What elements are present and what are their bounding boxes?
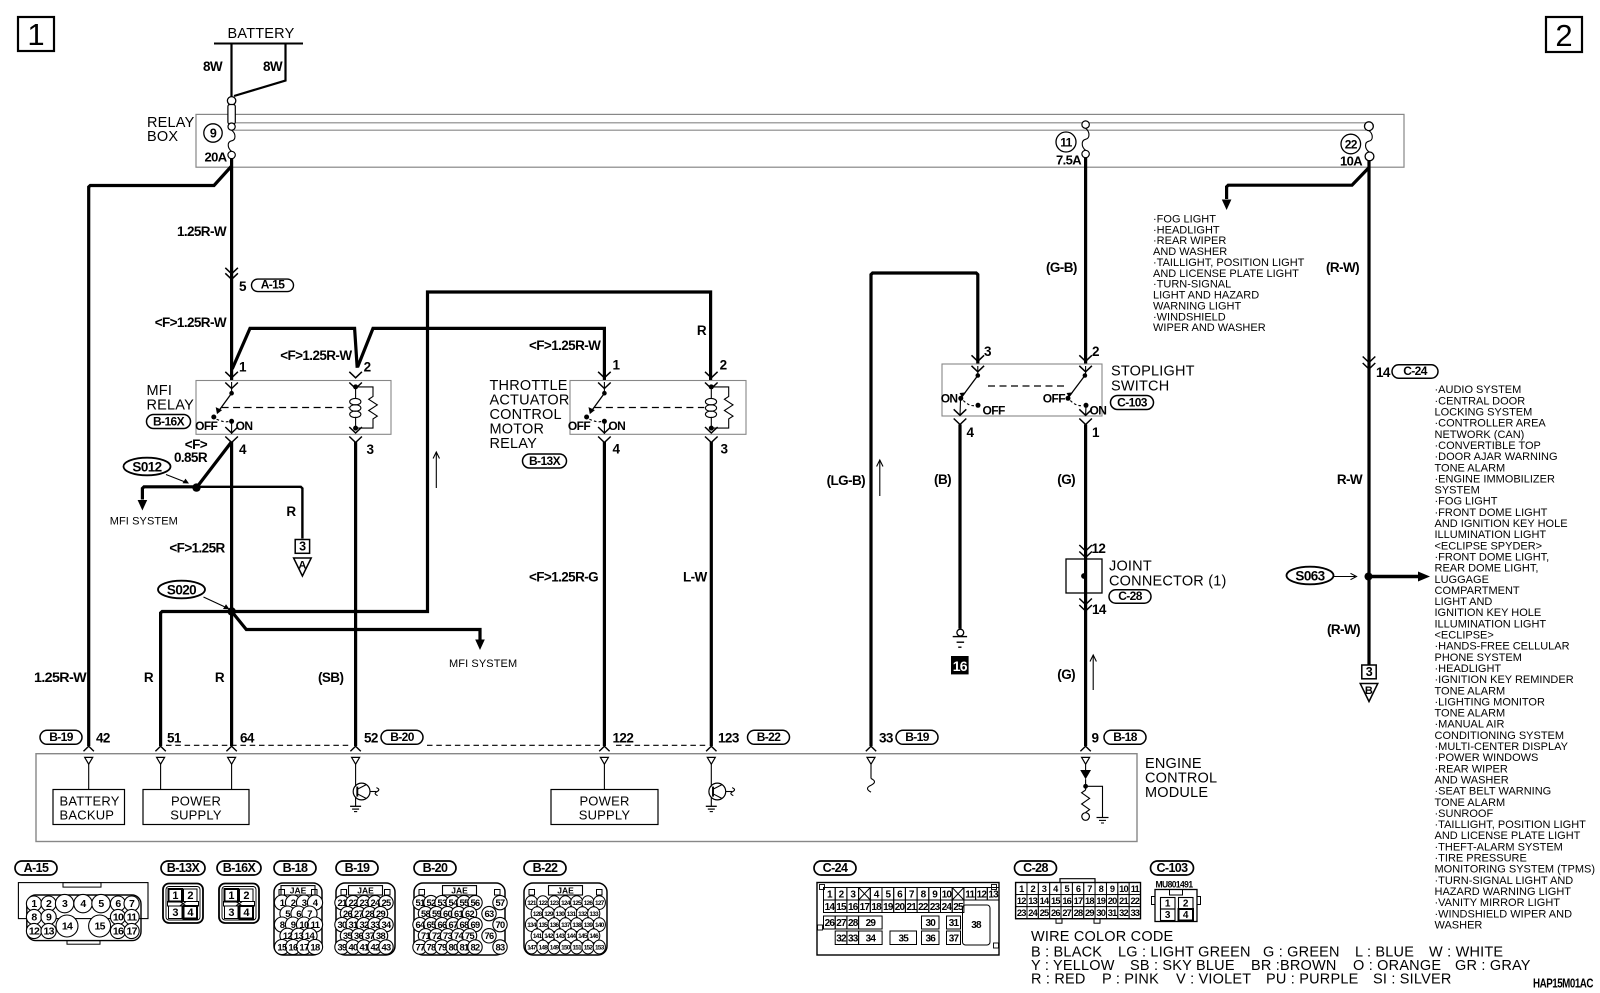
svg-text:B-20: B-20 (423, 861, 448, 875)
svg-text:30: 30 (1096, 908, 1105, 918)
svg-text:1: 1 (172, 890, 178, 902)
svg-text:MODULE: MODULE (1145, 785, 1208, 801)
svg-text:151: 151 (572, 944, 582, 951)
svg-text:25: 25 (382, 898, 391, 908)
svg-text:1.25R-W: 1.25R-W (34, 670, 87, 685)
svg-text:77: 77 (416, 942, 425, 952)
svg-text:76: 76 (485, 931, 494, 941)
svg-text:0.85R: 0.85R (174, 450, 208, 465)
ECM pin terminals (84, 746, 94, 751)
svg-text:R: R (144, 670, 154, 685)
svg-text:51: 51 (167, 731, 182, 746)
wire throttle pin4 to ECM pin 122 (603, 442, 606, 746)
svg-text:12: 12 (283, 931, 293, 942)
svg-text:R-W: R-W (1337, 472, 1363, 487)
svg-text:129: 129 (544, 911, 554, 918)
svg-text:35: 35 (343, 931, 352, 941)
svg-text:43: 43 (382, 942, 391, 952)
svg-text:P : PINK: P : PINK (1102, 972, 1159, 988)
svg-text:(LG-B): (LG-B) (827, 473, 865, 488)
svg-text:28: 28 (365, 909, 374, 919)
svg-text:1: 1 (1092, 425, 1100, 440)
svg-text:20: 20 (1108, 896, 1117, 906)
svg-text:147: 147 (527, 944, 537, 951)
wire MFI pin2 to throttle relay pin1 (358, 328, 605, 381)
svg-text:34: 34 (382, 920, 392, 930)
svg-text:12: 12 (977, 889, 988, 900)
svg-text:BACKUP: BACKUP (60, 808, 115, 823)
svg-text:1: 1 (239, 360, 247, 375)
svg-text:27: 27 (354, 909, 363, 919)
svg-text:130: 130 (556, 911, 566, 918)
svg-text:32: 32 (1119, 908, 1128, 918)
svg-text:JAE: JAE (290, 885, 307, 895)
wire 1.25R-W fuse 9 to MFI relay pin 1 (230, 158, 233, 381)
MFI relay internals (225, 372, 238, 378)
svg-text:R: R (697, 323, 707, 338)
svg-text:OFF: OFF (568, 419, 590, 433)
svg-text:23: 23 (360, 898, 369, 908)
fuse 9 20A (227, 97, 235, 105)
svg-text:69: 69 (471, 920, 480, 930)
svg-text:2: 2 (291, 898, 296, 909)
fuse 22 10A (1365, 122, 1374, 131)
stoplight dashed coupling (988, 385, 1067, 387)
svg-text:26: 26 (1051, 908, 1060, 918)
svg-text:B-16X: B-16X (223, 861, 257, 875)
svg-text:15: 15 (94, 921, 105, 933)
svg-text:17: 17 (299, 942, 309, 953)
svg-text:152: 152 (584, 944, 594, 951)
svg-text:37: 37 (365, 931, 374, 941)
svg-text:3: 3 (172, 907, 178, 919)
wire SB MFI pin3 to ECM pin 52 (354, 442, 357, 746)
svg-text:139: 139 (584, 922, 594, 929)
svg-text:19: 19 (883, 902, 894, 913)
svg-text:42: 42 (96, 731, 110, 746)
svg-text:72: 72 (432, 931, 441, 941)
svg-text:57: 57 (496, 898, 505, 908)
ECM pin connector pills (40, 730, 82, 744)
svg-text:56: 56 (471, 898, 480, 908)
svg-text:37: 37 (949, 934, 960, 945)
svg-text:C-28: C-28 (1023, 861, 1048, 875)
svg-text:4: 4 (80, 898, 86, 910)
svg-text:MFI SYSTEM: MFI SYSTEM (110, 516, 178, 528)
connector C-24 pin 14 pass-through (1363, 357, 1376, 363)
wire throttle pin3 to ECM pin 123 (710, 442, 713, 746)
svg-text:11: 11 (1131, 884, 1140, 894)
svg-text:A-15: A-15 (24, 861, 49, 875)
svg-text:4: 4 (967, 425, 975, 440)
joint connector (1) C-28 (1079, 545, 1092, 551)
svg-text:8: 8 (1099, 884, 1104, 894)
svg-text:2: 2 (1555, 18, 1572, 53)
svg-text:S012: S012 (132, 459, 161, 474)
svg-text:24: 24 (371, 898, 381, 908)
svg-text:24: 24 (942, 902, 953, 913)
svg-text:C-103: C-103 (1156, 861, 1188, 875)
connector B-20 (414, 861, 456, 875)
svg-text:OFF: OFF (983, 404, 1005, 418)
svg-text:16: 16 (1062, 896, 1071, 906)
svg-text:BOX: BOX (147, 129, 178, 145)
svg-text:B: B (1365, 685, 1373, 697)
throttle relay internals (598, 372, 611, 378)
svg-text:<F>1.25R-W: <F>1.25R-W (155, 315, 227, 330)
ground 3-B (1362, 665, 1376, 679)
svg-text:79: 79 (438, 942, 447, 952)
wire LG-B ECM pin 33 to stoplight pin 3 (871, 273, 978, 746)
svg-text:<F>1.25R: <F>1.25R (169, 541, 225, 556)
svg-text:SI : SILVER: SI : SILVER (1373, 972, 1452, 988)
svg-text:CONNECTOR (1): CONNECTOR (1) (1109, 574, 1227, 590)
svg-text:1.25R-W: 1.25R-W (177, 224, 227, 239)
svg-text:3: 3 (302, 898, 307, 909)
svg-text:12: 12 (1092, 541, 1106, 556)
svg-text:V : VIOLET: V : VIOLET (1176, 972, 1251, 988)
branch arrow to light systems (1227, 168, 1369, 199)
svg-text:<F>1.25R-W: <F>1.25R-W (529, 338, 601, 353)
svg-text:B-19: B-19 (49, 730, 74, 744)
svg-text:33: 33 (371, 920, 380, 930)
svg-text:70: 70 (496, 920, 505, 930)
svg-text:9: 9 (1110, 884, 1115, 894)
svg-text:11: 11 (127, 912, 138, 924)
wire R loop S020 to throttle pin 2 (232, 292, 711, 612)
page marker 2 (1546, 17, 1582, 52)
svg-text:B-18: B-18 (1113, 730, 1138, 744)
svg-text:25: 25 (1040, 908, 1049, 918)
svg-text:64: 64 (416, 920, 426, 930)
svg-text:144: 144 (567, 933, 577, 940)
svg-text:121: 121 (527, 900, 537, 907)
svg-text:26: 26 (825, 918, 836, 929)
svg-text:S020: S020 (167, 582, 196, 597)
svg-text:4: 4 (613, 442, 621, 457)
connector B-13X (161, 861, 205, 875)
svg-text:30: 30 (925, 918, 936, 929)
svg-text:B-13X: B-13X (167, 861, 201, 875)
svg-text:WASHER: WASHER (1435, 919, 1483, 931)
svg-text:15: 15 (836, 902, 847, 913)
svg-text:138: 138 (572, 922, 582, 929)
svg-text:1: 1 (1165, 899, 1171, 910)
svg-text:R : RED: R : RED (1031, 972, 1086, 988)
svg-text:B-16X: B-16X (153, 414, 185, 428)
wire MFI pin1 to pin2 bridge (232, 328, 357, 369)
svg-text:136: 136 (550, 922, 560, 929)
power supply block 2 (603, 764, 605, 789)
svg-text:8: 8 (31, 912, 37, 924)
svg-text:(R-W): (R-W) (1327, 622, 1360, 637)
svg-text:81: 81 (460, 942, 469, 952)
svg-text:S063: S063 (1295, 568, 1325, 583)
svg-text:65: 65 (427, 920, 436, 930)
wire S020 to MFI SYSTEM 2 (232, 612, 480, 640)
svg-text:146: 146 (589, 933, 599, 940)
svg-text:PU : PURPLE: PU : PURPLE (1266, 972, 1359, 988)
svg-text:54: 54 (449, 898, 459, 908)
svg-text:35: 35 (898, 934, 909, 945)
svg-text:8W: 8W (263, 59, 283, 74)
svg-text:B-13X: B-13X (529, 454, 561, 468)
svg-text:149: 149 (550, 944, 560, 951)
svg-text:L-W: L-W (683, 570, 708, 585)
svg-text:HAP15M01AC: HAP15M01AC (1533, 977, 1593, 991)
svg-text:126: 126 (584, 900, 594, 907)
svg-text:17: 17 (1074, 896, 1083, 906)
svg-text:2: 2 (1183, 899, 1189, 910)
svg-text:5: 5 (239, 279, 247, 294)
svg-text:14: 14 (1376, 365, 1391, 380)
svg-text:33: 33 (1130, 908, 1139, 918)
svg-text:145: 145 (578, 933, 588, 940)
svg-text:MFI SYSTEM: MFI SYSTEM (449, 658, 517, 670)
svg-text:2: 2 (720, 358, 727, 373)
splice S063 (1287, 567, 1334, 585)
output transistor 1 (355, 764, 357, 783)
svg-text:6: 6 (296, 909, 301, 920)
svg-text:22: 22 (1345, 138, 1358, 152)
svg-text:137: 137 (561, 922, 571, 929)
svg-text:B-22: B-22 (757, 730, 782, 744)
connector C-24 (814, 861, 856, 875)
svg-text:7.5A: 7.5A (1056, 153, 1082, 168)
svg-text:9: 9 (210, 127, 217, 141)
svg-text:8W: 8W (203, 59, 223, 74)
svg-text:32: 32 (836, 934, 847, 945)
svg-text:B-19: B-19 (345, 861, 370, 875)
svg-text:1: 1 (613, 358, 621, 373)
svg-text:JAE: JAE (557, 885, 574, 895)
svg-text:38: 38 (971, 920, 982, 931)
svg-text:3: 3 (721, 442, 729, 457)
wire G stoplight pin1 to joint connector and ECM pin 9 (1084, 425, 1087, 747)
svg-text:2: 2 (46, 898, 52, 910)
svg-text:3: 3 (1366, 665, 1373, 679)
svg-text:2: 2 (187, 890, 193, 902)
svg-text:132: 132 (578, 911, 588, 918)
svg-text:29: 29 (866, 918, 877, 929)
svg-text:39: 39 (338, 942, 347, 952)
svg-text:C-28: C-28 (1118, 589, 1143, 603)
svg-text:11: 11 (1060, 136, 1072, 150)
svg-text:9: 9 (1092, 731, 1099, 746)
svg-text:(G-B): (G-B) (1046, 260, 1077, 275)
svg-text:4: 4 (239, 442, 247, 457)
connector C-103 (1151, 861, 1194, 875)
svg-text:8: 8 (280, 920, 285, 931)
svg-text:17: 17 (860, 902, 871, 913)
svg-text:B-18: B-18 (283, 861, 308, 875)
svg-text:28: 28 (848, 918, 859, 929)
svg-text:RELAY: RELAY (147, 398, 195, 414)
connector A-15 (15, 861, 57, 875)
svg-text:12: 12 (1017, 896, 1026, 906)
svg-text:16: 16 (288, 942, 298, 953)
svg-text:3: 3 (62, 898, 68, 910)
svg-text:11: 11 (965, 889, 975, 900)
svg-text:18: 18 (1085, 896, 1094, 906)
svg-text:SWITCH: SWITCH (1111, 379, 1169, 395)
svg-text:3: 3 (228, 907, 234, 919)
wire 1.25R-W branch to ECM pin 42 (89, 166, 232, 746)
svg-text:32: 32 (360, 920, 369, 930)
svg-text:143: 143 (556, 933, 566, 940)
svg-text:68: 68 (460, 920, 469, 930)
wire S020 left to ECM pin 51 (161, 612, 232, 747)
svg-text:1: 1 (228, 890, 234, 902)
splice S012 (124, 458, 171, 476)
svg-text:75: 75 (465, 931, 474, 941)
svg-text:7: 7 (307, 909, 312, 920)
svg-text:18: 18 (871, 902, 882, 913)
svg-text:15: 15 (277, 942, 288, 953)
svg-text:13: 13 (988, 889, 999, 900)
svg-text:61: 61 (454, 909, 463, 919)
svg-text:82: 82 (471, 942, 480, 952)
svg-text:142: 142 (544, 933, 554, 940)
svg-text:JOINT: JOINT (1109, 559, 1152, 575)
svg-text:OFF: OFF (195, 419, 217, 433)
svg-text:63: 63 (485, 909, 494, 919)
svg-text:64: 64 (240, 731, 255, 746)
svg-text:BATTERY: BATTERY (60, 794, 120, 809)
relay box bus bars (232, 122, 1366, 124)
wire S063 arrow to systems list (1369, 575, 1419, 579)
svg-text:13: 13 (294, 931, 304, 942)
svg-text:B-19: B-19 (905, 730, 930, 744)
svg-text:150: 150 (561, 944, 571, 951)
svg-text:6: 6 (1076, 884, 1081, 894)
chassis ground 16 (957, 629, 964, 636)
svg-text:R: R (215, 670, 225, 685)
svg-text:ON: ON (608, 419, 625, 433)
svg-text:29: 29 (1085, 908, 1094, 918)
engine control module box (36, 754, 1137, 842)
svg-text:<F>1.25R-W: <F>1.25R-W (280, 348, 352, 363)
svg-text:21: 21 (338, 898, 347, 908)
svg-text:10: 10 (1119, 884, 1128, 894)
svg-text:(G): (G) (1057, 472, 1075, 487)
svg-text:STOPLIGHT: STOPLIGHT (1111, 364, 1195, 380)
svg-text:36: 36 (925, 934, 936, 945)
svg-text:JAE: JAE (451, 885, 468, 895)
svg-text:2: 2 (243, 890, 249, 902)
svg-text:WIPER AND WASHER: WIPER AND WASHER (1153, 322, 1266, 334)
ECM dashed pin bus (166, 744, 352, 746)
svg-text:27: 27 (1062, 908, 1071, 918)
svg-text:20A: 20A (204, 150, 227, 165)
svg-text:12: 12 (29, 926, 40, 938)
svg-text:141: 141 (533, 933, 543, 940)
page marker 1 (18, 17, 54, 51)
svg-text:3: 3 (984, 344, 992, 359)
svg-text:41: 41 (360, 942, 369, 952)
svg-text:7: 7 (1087, 884, 1092, 894)
svg-text:55: 55 (460, 898, 469, 908)
wire R to ground A (197, 487, 303, 539)
fuse 11 7.5A (1082, 121, 1089, 128)
svg-text:34: 34 (866, 934, 877, 945)
svg-text:ON: ON (941, 392, 958, 406)
svg-text:66: 66 (438, 920, 447, 930)
svg-text:52: 52 (427, 898, 436, 908)
svg-text:4: 4 (1183, 910, 1189, 921)
svg-text:ON: ON (236, 419, 253, 433)
ECM pin 9 diode and resistor to ground (1085, 764, 1087, 770)
svg-text:3: 3 (1042, 884, 1047, 894)
svg-text:(B): (B) (934, 472, 951, 487)
svg-text:123: 123 (550, 900, 560, 907)
svg-text:128: 128 (533, 911, 543, 918)
svg-text:10: 10 (113, 912, 124, 924)
svg-text:17: 17 (126, 926, 137, 938)
svg-text:1: 1 (1019, 884, 1024, 894)
svg-text:23: 23 (1017, 908, 1026, 918)
svg-text:JAE: JAE (357, 885, 374, 895)
wire B stoplight pin4 to ground 16 (958, 425, 961, 629)
svg-text:58: 58 (421, 909, 430, 919)
stoplight switch internals (972, 355, 985, 361)
svg-text:22: 22 (1130, 896, 1139, 906)
svg-text:18: 18 (310, 942, 320, 953)
svg-text:<F>1.25R-G: <F>1.25R-G (529, 570, 598, 585)
svg-text:5: 5 (98, 898, 104, 910)
svg-text:13: 13 (43, 926, 54, 938)
svg-text:26: 26 (343, 909, 352, 919)
svg-text:(R-W): (R-W) (1326, 260, 1359, 275)
svg-text:A-15: A-15 (261, 277, 286, 291)
svg-text:2: 2 (1092, 344, 1099, 359)
svg-text:16: 16 (848, 902, 859, 913)
svg-text:R: R (286, 504, 296, 519)
svg-text:27: 27 (836, 918, 847, 929)
svg-text:GR : GRAY: GR : GRAY (1455, 958, 1531, 974)
svg-text:2: 2 (1030, 884, 1035, 894)
wire G-B fuse 11 to stoplight pin 2 (1084, 158, 1087, 364)
svg-text:WIRE COLOR CODE: WIRE COLOR CODE (1031, 929, 1173, 945)
svg-text:10: 10 (942, 889, 953, 900)
svg-text:31: 31 (349, 920, 358, 930)
svg-text:14: 14 (62, 921, 73, 933)
connector A-15 pin 5 pass-through (225, 268, 238, 274)
C-24 cell 38 (963, 905, 991, 945)
svg-text:16: 16 (113, 926, 124, 938)
fusible link 8W right wire (234, 44, 286, 97)
battery backup block (88, 764, 90, 789)
svg-text:B-22: B-22 (533, 861, 558, 875)
svg-text:19: 19 (1096, 896, 1105, 906)
svg-text:83: 83 (496, 942, 505, 952)
svg-text:60: 60 (443, 909, 452, 919)
svg-text:23: 23 (930, 902, 941, 913)
svg-text:15: 15 (1051, 896, 1060, 906)
svg-text:21: 21 (906, 902, 917, 913)
connector B-19 (336, 861, 378, 875)
output transistor 2 (710, 764, 712, 783)
svg-text:80: 80 (449, 942, 458, 952)
svg-text:33: 33 (879, 731, 894, 746)
svg-text:14: 14 (1092, 602, 1107, 617)
wire 0.85R to splice S012 (197, 442, 232, 488)
svg-text:123: 123 (718, 731, 740, 746)
svg-text:9: 9 (291, 920, 296, 931)
wire MFI pin4 down to ECM pin 64 (230, 442, 233, 746)
svg-text:28: 28 (1074, 908, 1083, 918)
svg-text:6: 6 (115, 898, 121, 910)
